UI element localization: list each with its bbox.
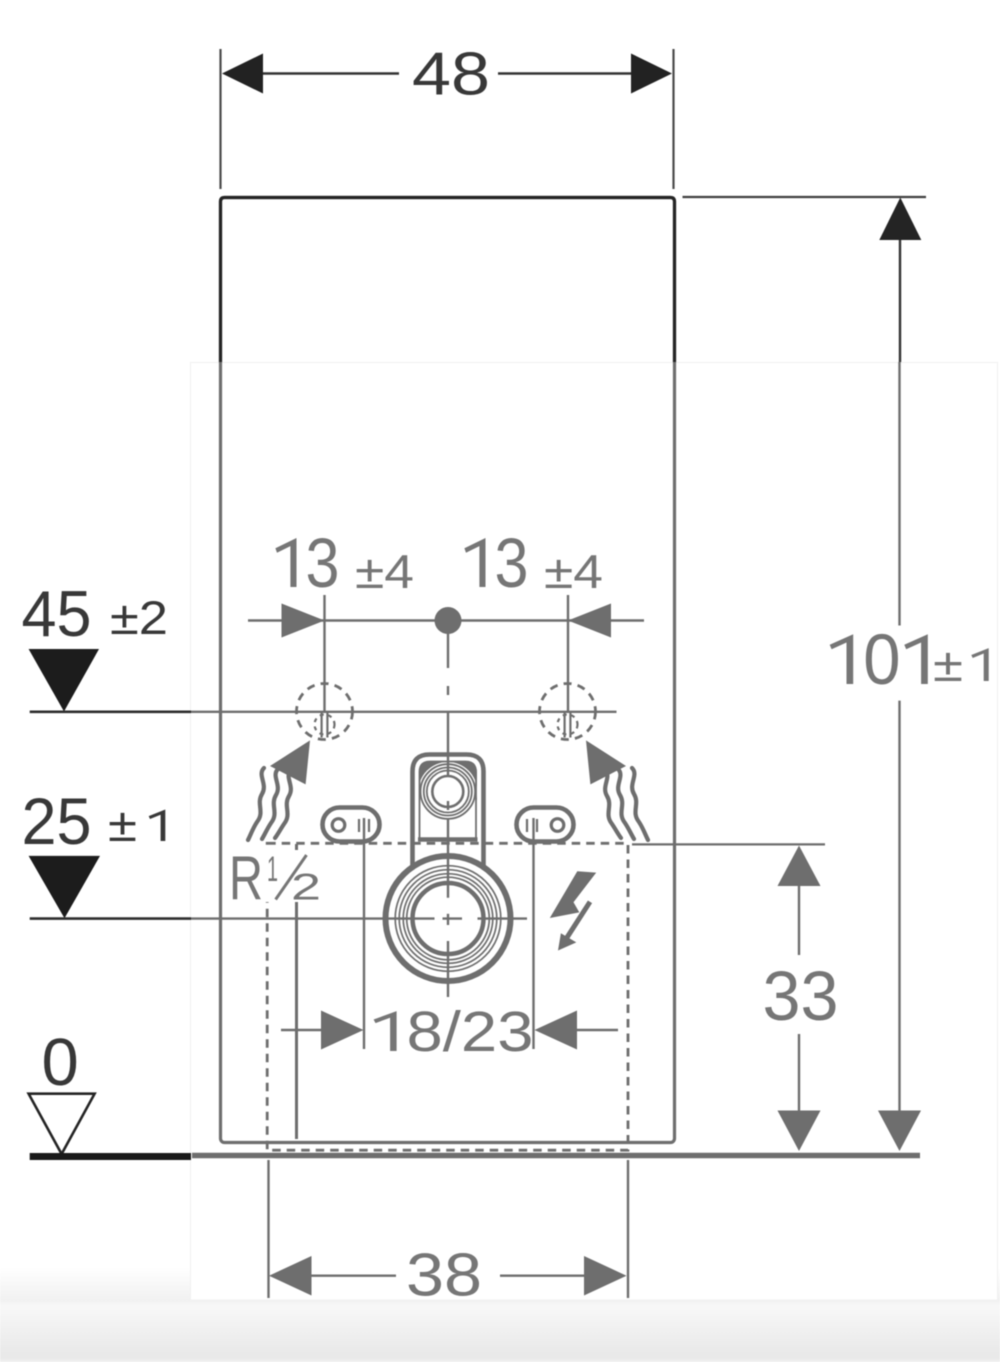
- svg-text:±: ±: [933, 638, 963, 691]
- svg-text:33: 33: [763, 957, 839, 1035]
- svg-text:R: R: [229, 844, 263, 913]
- svg-text:3: 3: [306, 524, 340, 602]
- svg-text:0: 0: [42, 1025, 79, 1100]
- svg-text:±4: ±4: [355, 545, 414, 598]
- svg-text:38: 38: [406, 1242, 482, 1309]
- svg-text:45: 45: [22, 577, 92, 650]
- svg-text:±4: ±4: [544, 545, 603, 598]
- svg-text:8/23: 8/23: [407, 1000, 534, 1064]
- svg-text:48: 48: [412, 41, 490, 108]
- svg-text:0: 0: [863, 621, 900, 700]
- svg-text:±: ±: [108, 798, 137, 851]
- svg-text:±2: ±2: [110, 591, 168, 644]
- svg-text:3: 3: [495, 524, 529, 602]
- svg-text:1: 1: [267, 850, 278, 889]
- svg-text:25: 25: [22, 784, 92, 858]
